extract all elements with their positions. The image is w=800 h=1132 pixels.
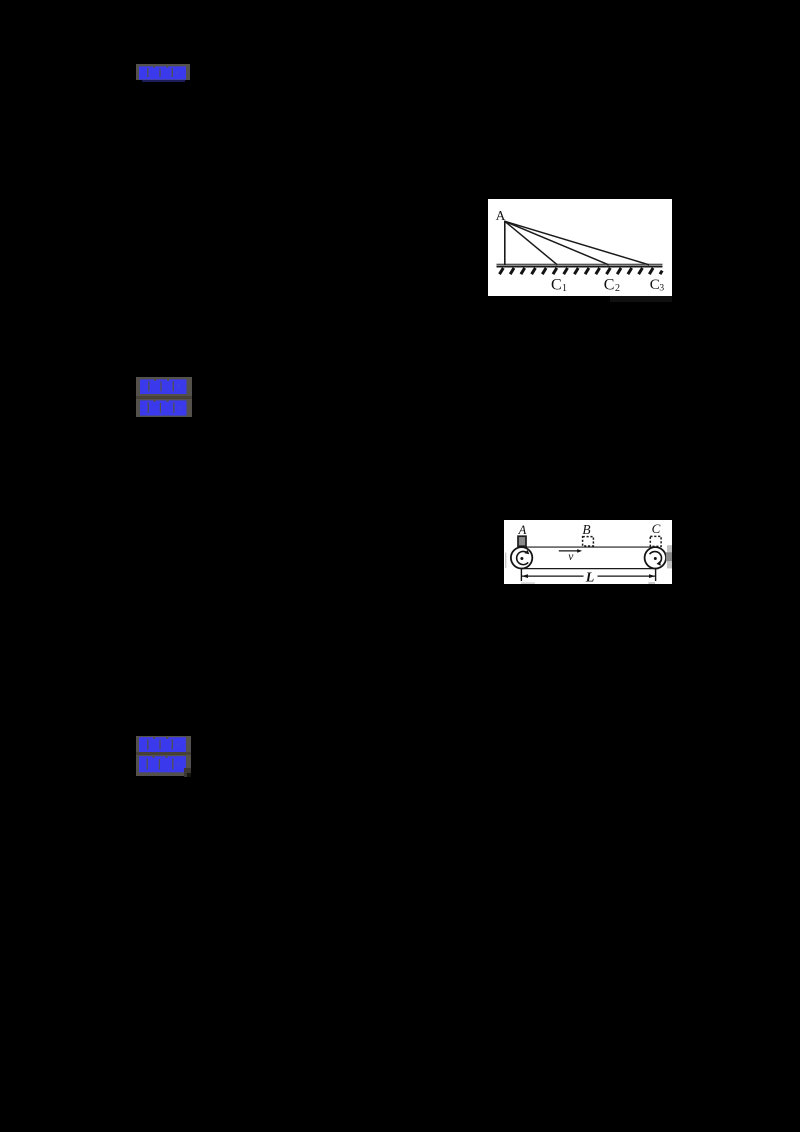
left pulley arc arrowhead: [524, 549, 529, 553]
right pulley outer circle: [644, 547, 665, 568]
L dimension line left segment: [521, 575, 583, 577]
ground hatching: [500, 268, 663, 274]
link block 2 background: [136, 377, 192, 418]
svg-text:C: C: [651, 521, 660, 536]
link block 3 background: [136, 736, 191, 777]
svg-text:1: 1: [562, 283, 567, 294]
right edge light gray tab: [667, 545, 673, 568]
velocity arrowhead: [577, 549, 582, 553]
svg-text:2: 2: [615, 283, 620, 294]
dashed square C: [650, 536, 661, 546]
link block 3 blue line 1: [139, 737, 186, 753]
svg-text:C: C: [551, 277, 562, 294]
right pulley rotation arc: [649, 551, 661, 563]
link block 3 black corner mark: [187, 773, 192, 777]
svg-text:v: v: [568, 551, 574, 563]
pole: vertical line from A to ground: [504, 221, 506, 265]
link block 3 blue line 2: [139, 756, 186, 773]
svg-text:A: A: [517, 522, 526, 536]
trajectory line to C3: [505, 221, 649, 264]
L dimension line right segment: [597, 575, 655, 577]
right pulley center dot: [653, 557, 656, 560]
link block 2 divider band: [136, 396, 192, 399]
block A (gray block on belt): [518, 536, 526, 546]
link block 2 blue line 1: [140, 379, 187, 395]
svg-text:C: C: [604, 277, 615, 294]
dashed square B: [582, 536, 593, 545]
link block 3 dark corner patch: [184, 768, 191, 777]
left pulley outer circle: [510, 547, 531, 568]
belt bottom line: [521, 567, 658, 569]
link block 1 underline: [142, 80, 186, 82]
ground thick lower line: [497, 266, 663, 268]
ground thin upper line: [497, 263, 663, 265]
diagram 2: conveyor belt figure: [504, 520, 673, 585]
link block 3 divider band: [136, 752, 191, 755]
left pulley rotation arc: [516, 551, 528, 564]
bottom faint artifact: [648, 582, 655, 583]
trajectory line to C2: [505, 221, 609, 264]
bottom-left faint artifact: [521, 582, 535, 583]
right edge medium gray tab: [665, 552, 672, 561]
link block 2 blue line 2: [140, 400, 187, 416]
left pulley center dot: [520, 557, 523, 560]
L dimension right arrowhead: [649, 574, 655, 578]
dark strip below diagram 1: [610, 296, 672, 302]
L dimension right tick: [654, 568, 656, 581]
svg-text:3: 3: [659, 284, 664, 294]
L dimension left arrowhead: [521, 574, 527, 578]
diagram 1 white background: [488, 199, 672, 296]
velocity arrow shaft: [558, 549, 579, 551]
svg-text:B: B: [582, 521, 590, 536]
diagram 2 white background: [504, 520, 673, 585]
svg-text:L: L: [584, 570, 594, 584]
diagram 1: pendulum / projectile triangle figure: [488, 199, 672, 296]
belt top line: [521, 546, 655, 548]
left edge faint artifact: [505, 552, 506, 568]
svg-text:C: C: [650, 277, 660, 293]
L dimension left tick: [520, 568, 522, 581]
link block 1 background: [136, 64, 191, 80]
trajectory line to C1: [505, 221, 558, 264]
right pulley arc arrowhead: [656, 560, 660, 565]
link block 1 blue text line: [139, 66, 186, 80]
